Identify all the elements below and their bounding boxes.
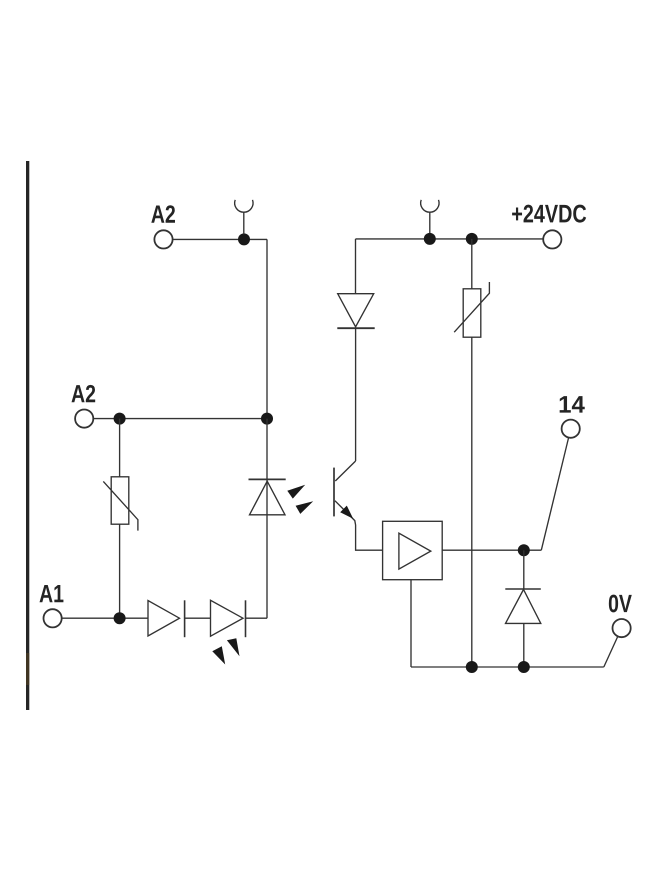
junction LED branch top [261, 413, 273, 425]
optocoupler LED D3 cathode bar [249, 478, 286, 480]
test socket stem right [429, 212, 431, 235]
wire varistor branch upper [119, 419, 121, 477]
wire A2 mid to corner [93, 418, 267, 420]
terminal A2 mid [75, 410, 93, 428]
label A2 mid [72, 385, 96, 402]
varistor RV2 body [463, 289, 481, 337]
junction rail right [466, 233, 478, 245]
LED D2 cathode bar [245, 600, 247, 637]
switch lead to terminal 14 [541, 438, 568, 551]
varistor RV2 diagonal [454, 282, 489, 332]
varistor RV1 diagonal [103, 481, 138, 530]
wire diode branch upper [355, 239, 357, 294]
wire U1 bottom lead [410, 580, 412, 667]
test socket arc left [235, 200, 253, 212]
label A1 [40, 585, 64, 602]
test socket arc right [421, 200, 439, 212]
junction 0V varistor branch [466, 661, 478, 673]
wire varistor RV2 lower [471, 337, 473, 667]
terminal A2 top [154, 230, 172, 248]
D3 light arrow 2 [296, 501, 314, 514]
junction output node [518, 544, 530, 556]
junction A1 varistor branch [114, 612, 126, 624]
label +24VDC [512, 205, 586, 223]
wire D2 to corner up [246, 617, 268, 619]
lead to terminal 0V [604, 636, 618, 667]
phototransistor Q1 base bar [333, 468, 335, 517]
wire A1 to diode D1 [62, 617, 148, 619]
diode D1 cathode bar [184, 600, 186, 637]
wire zener branch lower [523, 623, 525, 667]
label A2 top [151, 205, 175, 222]
amplifier U1 box [383, 521, 443, 579]
terminal +24VDC [543, 230, 561, 248]
zener D5 cathode bar [505, 588, 541, 590]
wire 0V rail [411, 666, 604, 668]
wire varistor branch lower [119, 524, 121, 618]
junction on A2 top wire [238, 233, 250, 245]
wire varistor RV2 upper [471, 239, 473, 289]
wire A2 top to corner [173, 238, 267, 240]
junction varistor branch top [114, 413, 126, 425]
terminal 14 [562, 420, 580, 438]
wire U1 output [442, 549, 541, 551]
D3 light arrow 1 [287, 485, 305, 499]
wire LED branch vertical [266, 419, 268, 619]
diode D1 triangle [148, 601, 180, 637]
wire diode branch lower [355, 328, 357, 461]
diode D4 cathode bar [337, 327, 374, 329]
varistor RV1 body [111, 477, 129, 524]
terminal A1 [44, 609, 62, 627]
LED D2 emission arrow 2 [227, 638, 240, 656]
wire corner down to node A2 mid [266, 239, 268, 418]
label 0V [609, 595, 632, 613]
wire zener branch upper [523, 550, 525, 589]
test socket stem left [243, 212, 245, 235]
terminal 0V [613, 619, 631, 637]
phototransistor Q1 emitter lead [335, 501, 383, 551]
optocoupler LED D3 triangle [250, 481, 286, 515]
junction rail left [424, 233, 436, 245]
zener D5 triangle [506, 590, 541, 624]
LED D2 emission arrow 1 [212, 646, 225, 664]
diode D4 triangle [338, 294, 374, 327]
junction 0V zener branch [518, 661, 530, 673]
amplifier U1 triangle [399, 533, 431, 569]
phototransistor Q1 collector lead [335, 461, 355, 481]
label 14 [560, 396, 585, 413]
Q1 emitter arrowhead [340, 506, 353, 519]
wire D1 to D2 [185, 617, 211, 619]
LED D2 triangle [211, 600, 244, 636]
mounting rail bar [26, 161, 29, 710]
wire +24VDC rail [356, 238, 544, 240]
